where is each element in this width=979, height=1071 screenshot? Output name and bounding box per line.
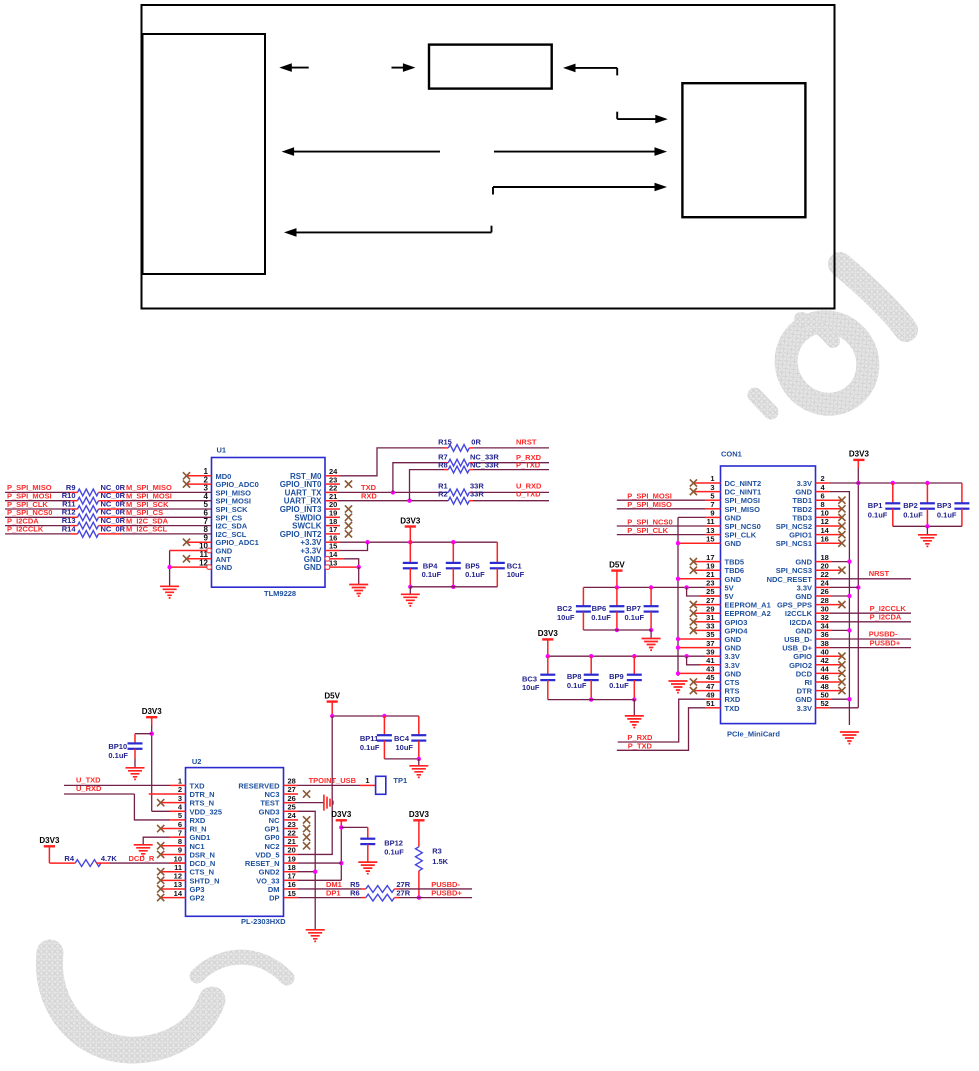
CON1 pin 29 no-connect [690, 610, 721, 617]
svg-text:PUSBD+: PUSBD+ [431, 889, 462, 898]
elbow arrow second toward right box [493, 183, 667, 195]
svg-text:PCIe_MiniCard: PCIe_MiniCard [727, 730, 780, 739]
branch wire RXD up to R8 [410, 470, 449, 501]
svg-text:BP1: BP1 [868, 501, 883, 510]
CON1 left GND bus [676, 517, 721, 676]
net P_SPI_MISO wire [5, 483, 78, 492]
ground below BP12 [358, 862, 377, 874]
ground below BC4 [409, 759, 428, 778]
svg-text:BP12: BP12 [384, 839, 403, 848]
capacitor BC1 10uF [490, 542, 525, 587]
ground below BP7 [642, 630, 661, 650]
op-amp U1 TLM9228 body [212, 446, 326, 599]
svg-text:D3V3: D3V3 [409, 810, 430, 819]
CON1 right GND bus [816, 492, 852, 725]
resistor R5 27R [350, 880, 411, 893]
test point TP1 [365, 776, 407, 794]
block diagram outer frame [142, 5, 835, 309]
net U_TXD wire to U2 pin 1 [64, 776, 186, 786]
U2 pin 9 no-connect [157, 851, 185, 858]
net P_SPI_NCS0 wire [5, 508, 78, 517]
svg-text:BP3: BP3 [937, 501, 952, 510]
svg-text:NRST: NRST [516, 438, 537, 447]
net PUSBD+ wire [394, 889, 472, 898]
svg-text:NRST: NRST [869, 569, 890, 578]
net M_SPI_MISO wire to U1 pin 3 [99, 483, 212, 492]
net P_RXD wire to CON1 pin 49 [618, 699, 721, 742]
CON1 pin 19 no-connect [690, 567, 721, 574]
CON1 pin 47 no-connect [690, 687, 721, 694]
5V rail wire to CON1 pins 23/25 [583, 585, 720, 596]
watermark fragment letter l stroke [840, 264, 906, 330]
svg-text:GND: GND [216, 563, 233, 572]
net PUSBD+ wire from CON1 pin 38 [816, 638, 912, 647]
svg-text:PL-2303HXD: PL-2303HXD [241, 917, 286, 926]
U1 pin 22 TXD wire [325, 483, 448, 495]
arrow into middle box left [392, 63, 416, 72]
capacitor BC3 10uF [522, 656, 555, 699]
svg-text:TP1: TP1 [393, 776, 407, 785]
CON1 right 3.3V bus D3V3 [856, 460, 860, 708]
U1 pin 2 no-connect [183, 481, 212, 488]
CON1 pin 27 no-connect [690, 601, 721, 608]
arrow middle-right toward right box [494, 147, 667, 156]
svg-text:0.1uF: 0.1uF [609, 681, 629, 690]
svg-text:DCD_R: DCD_R [129, 854, 155, 863]
net P_SPI_NCS0 wire to CON1 pin 11 [617, 517, 721, 526]
ground of CON1 right GND bus [840, 732, 859, 744]
svg-text:RXD: RXD [361, 491, 377, 500]
CON1 pin 28 no-connect [816, 601, 846, 608]
net P_SPI_MISO wire to CON1 pin 7 [617, 500, 721, 509]
resistor R13 NC_0R [62, 516, 126, 529]
CON1 pin 45 no-connect [690, 678, 721, 685]
U2 pin 8 no-connect [157, 842, 185, 849]
svg-text:GP2: GP2 [190, 894, 205, 903]
svg-text:0R: 0R [471, 437, 481, 446]
resistor R1 33R [438, 481, 484, 495]
CON1 pin 3 no-connect [690, 488, 721, 495]
CON1 pin 1 no-connect [690, 479, 721, 486]
CON1 pin 6 no-connect [816, 497, 846, 504]
net U_TXD wire [469, 490, 549, 501]
svg-text:D5V: D5V [324, 691, 340, 700]
ground below U1 pins 14/13 [349, 585, 368, 597]
capacitor BP12 0.1uF [341, 827, 404, 862]
CON1 pin 16 no-connect [816, 540, 846, 547]
3.3V rail wire to CON1 pins 39/41 [546, 654, 721, 665]
block diagram middle box [429, 45, 552, 89]
capacitor BP10 0.1uF [108, 734, 151, 768]
CON1 right bypass bottom rail [893, 524, 962, 528]
svg-text:BP10: BP10 [108, 742, 127, 751]
U1 pin 19 no-connect [325, 514, 352, 521]
U2 pin 28 wire TPOINT_USB [284, 776, 376, 785]
svg-text:U2: U2 [192, 757, 202, 766]
svg-text:16: 16 [821, 534, 829, 543]
U1 pin 18 no-connect [325, 522, 352, 529]
svg-text:10uF: 10uF [522, 683, 540, 692]
svg-text:10uF: 10uF [557, 613, 575, 622]
power symbol D3V3 left of CON1 [538, 629, 559, 656]
capacitor BP4 0.1uF [403, 542, 442, 589]
watermark fragment l entry stroke [801, 319, 833, 341]
svg-text:0.1uF: 0.1uF [903, 511, 923, 520]
capacitor BP5 0.1uF [446, 542, 485, 589]
svg-text:0.1uF: 0.1uF [465, 570, 485, 579]
capacitor BP7 0.1uF [625, 587, 659, 632]
capacitor BC2 10uF [557, 587, 591, 630]
net P_I2CCLK wire [5, 525, 78, 534]
resistor R9 NC_0R [66, 483, 126, 496]
svg-text:D3V3: D3V3 [538, 629, 559, 638]
elbow arrow into right box top [617, 112, 668, 124]
svg-text:0.1uF: 0.1uF [108, 751, 128, 760]
U2 pin 11 no-connect [157, 868, 185, 875]
resistor R10 NC_0R [62, 491, 126, 504]
CON1 pin 14 no-connect [816, 531, 846, 538]
D3V3 wire to U2 pins 17/19 [284, 820, 344, 880]
U2 pin 3 no-connect [157, 799, 185, 806]
svg-text:GND: GND [725, 539, 742, 548]
svg-text:0.1uF: 0.1uF [422, 570, 442, 579]
CON1 pin 31 no-connect [690, 618, 721, 625]
U1 pin 24 wire to R15 [325, 448, 448, 476]
power symbol D3V3 above CON1 right [849, 450, 870, 460]
arrow left-top toward left box [279, 63, 308, 72]
net P_TXD wire [469, 460, 549, 469]
svg-text:0.1uF: 0.1uF [937, 511, 957, 520]
svg-text:U_RXD: U_RXD [76, 784, 102, 793]
ground below BP9 [625, 700, 644, 728]
svg-text:10uF: 10uF [507, 570, 525, 579]
resistor R3 1.5K pull-up [416, 820, 449, 899]
U1 pin 21 RXD wire [325, 491, 448, 503]
svg-text:D3V3: D3V3 [39, 836, 60, 845]
svg-text:14: 14 [174, 889, 183, 898]
watermark fragment i bit [755, 395, 771, 412]
svg-text:P_I2CDA: P_I2CDA [870, 612, 902, 621]
svg-text:0.1uF: 0.1uF [591, 613, 611, 622]
svg-text:33R: 33R [470, 490, 484, 499]
U2 pin 23 no-connect [284, 825, 311, 832]
arrow bottom toward left box with elbow [284, 226, 492, 237]
U2 pin 7 GND1 to ground [143, 837, 185, 844]
net DM1 wire from U2 pin 16 [284, 880, 366, 889]
wire D3V3 to U2 pin 4 VDD_325 [150, 725, 186, 811]
connector CON1 PCIe_MiniCard body [721, 450, 816, 739]
net P_I2CDA wire [5, 516, 78, 525]
resistor R12 NC_0R [62, 508, 126, 521]
net PUSBD- wire [394, 880, 472, 889]
U2 pin 22 no-connect [284, 834, 311, 841]
CON1 pin 24 wire to 3.3V bus [816, 586, 859, 588]
svg-text:1: 1 [365, 776, 369, 785]
resistor R6 27R [350, 888, 411, 901]
svg-text:1.5K: 1.5K [432, 857, 448, 866]
U2 pin 24 no-connect [284, 816, 311, 823]
CON1 pin 8 no-connect [816, 505, 846, 512]
svg-text:R2: R2 [438, 490, 448, 499]
net DCD_R wire to U2 pin 10 [96, 854, 185, 863]
net P_I2CDA wire from CON1 pin 32 [816, 612, 912, 621]
svg-text:TLM9228: TLM9228 [264, 589, 296, 598]
U2 5V bypass bottom rail [384, 757, 421, 761]
U1 pin 16 +3.3V rail [325, 540, 497, 544]
svg-text:R14: R14 [62, 524, 77, 533]
svg-text:0.1uF: 0.1uF [868, 511, 888, 520]
svg-text:R6: R6 [350, 888, 360, 897]
U1 GND pins 10,12 to ground [167, 548, 211, 586]
U2 pin 12 no-connect [157, 877, 185, 884]
svg-text:SPI_NCS1: SPI_NCS1 [776, 539, 812, 548]
svg-text:NC_33R: NC_33R [470, 460, 499, 469]
CON1 pin 33 no-connect [690, 627, 721, 634]
power symbol D3V3 above BP4 [400, 516, 421, 542]
svg-text:U1: U1 [217, 446, 227, 455]
svg-text:R8: R8 [438, 460, 448, 469]
svg-text:U_TXD: U_TXD [516, 490, 541, 499]
net M_SPI_SCK wire to U1 pin 5 [99, 500, 212, 509]
U1 bypass bottom rail [410, 586, 497, 588]
net U_RXD wire [469, 481, 549, 492]
U1 pin 17 no-connect [325, 530, 352, 537]
net M_I2C_SDA wire to U1 pin 7 [99, 516, 212, 525]
svg-text:DP: DP [269, 894, 279, 903]
ground below U2 GND bus [306, 930, 325, 942]
net P_SPI_MOSI wire to CON1 pin 5 [617, 492, 721, 501]
ground of CON1 left GND bus [669, 681, 688, 693]
3.3V bypass bottom rail [548, 699, 635, 701]
svg-text:D3V3: D3V3 [142, 707, 163, 716]
svg-text:BP11: BP11 [360, 734, 378, 743]
power symbol D3V3 above BP10 [142, 707, 163, 725]
resistor R2 33R [438, 490, 484, 505]
net U_RXD wire to U2 pin 5 [64, 784, 186, 820]
svg-text:0.1uF: 0.1uF [360, 743, 380, 752]
watermark fragment letter C arc [49, 953, 212, 1050]
svg-text:51: 51 [706, 699, 714, 708]
net M_SPI_MOSI wire to U1 pin 4 [99, 492, 212, 501]
CON1 pin names and numbers [706, 474, 830, 713]
net PUSBD- wire from CON1 pin 36 [816, 630, 912, 639]
capacitor BP6 0.1uF [591, 587, 624, 632]
5V bypass bottom rail [583, 629, 651, 631]
U1 pin 20 no-connect [325, 505, 352, 512]
U1 pin names and numbers [199, 467, 338, 572]
svg-text:BP7: BP7 [626, 604, 641, 613]
net P_SPI_CLK wire [5, 500, 78, 509]
net NRST wire from CON1 pin 22 [816, 569, 912, 579]
svg-text:P_SPI_MISO: P_SPI_MISO [627, 500, 672, 509]
capacitor BP2 0.1uF [903, 483, 935, 526]
svg-text:D3V3: D3V3 [400, 516, 421, 525]
ground below U2 pin 7 [134, 845, 153, 857]
ground below BP10 [126, 768, 145, 780]
svg-text:NC_0R: NC_0R [101, 524, 126, 533]
net P_RXD wire [469, 453, 549, 463]
U1 pin 11 no-connect [183, 555, 212, 562]
svg-text:P_TXD: P_TXD [628, 742, 653, 751]
U2 pin 6 no-connect [157, 825, 185, 832]
ground below U1 pins 10/12 [160, 586, 179, 598]
net P_I2CCLK wire from CON1 pin 30 [816, 604, 912, 613]
capacitor BP8 0.1uF [567, 656, 599, 702]
CON1 pin 46 no-connect [816, 678, 846, 685]
svg-text:M_I2C_SCL: M_I2C_SCL [126, 525, 168, 534]
svg-text:D3V3: D3V3 [849, 450, 870, 459]
CON1 pin 52 wire to 3.3V bus [816, 707, 859, 709]
svg-text:P_TXD: P_TXD [516, 460, 541, 469]
svg-text:52: 52 [821, 699, 829, 708]
ground below BP4 [401, 587, 420, 606]
svg-text:D3V3: D3V3 [331, 810, 352, 819]
U1 pin 23 no-connect [325, 481, 352, 488]
U1 GND pins 14,13 to ground [325, 556, 361, 584]
CON1 pin 44 no-connect [816, 670, 846, 677]
U1 pin 9 no-connect [183, 539, 212, 546]
net P_TXD wire to CON1 pin 51 [617, 708, 721, 751]
svg-text:4.7K: 4.7K [101, 854, 117, 863]
CON1 pin 12 no-connect [816, 522, 846, 529]
net M_I2C_SCL wire to U1 pin 8 [99, 525, 212, 534]
svg-text:BC2: BC2 [557, 604, 572, 613]
CON1 pin 10 no-connect [816, 514, 846, 521]
svg-text:0.1uF: 0.1uF [567, 681, 587, 690]
capacitor BP1 0.1uF [868, 483, 901, 526]
svg-text:BC4: BC4 [394, 734, 410, 743]
svg-text:PUSBD+: PUSBD+ [870, 638, 901, 647]
U2 pins 25/18 GND bus to ground [284, 811, 318, 929]
5V rail to BP11 BC4 [330, 714, 419, 718]
ground below BP2 [918, 526, 937, 546]
resistor R8 NC_33R [438, 460, 499, 473]
arrow into middle box right with elbow [563, 64, 617, 76]
svg-text:10uF: 10uF [396, 743, 414, 752]
svg-text:P_SPI_CLK: P_SPI_CLK [627, 526, 668, 535]
resistor R4 4.7K [49, 854, 117, 867]
svg-text:27R: 27R [396, 888, 410, 897]
U2 pin 14 no-connect [157, 894, 185, 901]
watermark fragment letter a bowl [769, 305, 884, 421]
svg-text:DP1: DP1 [326, 889, 341, 898]
svg-text:R4: R4 [64, 854, 74, 863]
svg-text:15: 15 [706, 534, 714, 543]
svg-text:BP8: BP8 [567, 672, 582, 681]
capacitor BC4 10uF [394, 716, 426, 759]
power symbol D3V3 left of R4 [39, 836, 60, 863]
CON1 pin 17 no-connect [690, 558, 721, 565]
branch wire TXD up to R7 [393, 463, 448, 493]
resistor R7 NC_33R [438, 453, 499, 467]
svg-text:R15: R15 [438, 437, 452, 446]
svg-text:R3: R3 [432, 847, 442, 856]
resistor R15 0R [438, 437, 481, 451]
resistor R11 NC_0R [62, 499, 126, 512]
svg-text:3.3V: 3.3V [797, 704, 812, 713]
capacitor BP9 0.1uF [609, 656, 642, 702]
power symbol D5V left of CON1 [609, 560, 625, 587]
svg-text:D5V: D5V [609, 560, 625, 569]
power symbol D3V3 above BP12 [331, 810, 352, 820]
net NRST wire [469, 438, 549, 448]
block diagram right box [682, 83, 805, 217]
svg-text:GND: GND [304, 563, 322, 572]
svg-text:BP6: BP6 [592, 604, 607, 613]
U1 pin 15 +3.3V elbow [325, 542, 368, 550]
svg-text:CON1: CON1 [721, 450, 742, 459]
net DP1 wire from U2 pin 15 [284, 889, 366, 898]
watermark fragment o top [197, 957, 287, 978]
CON1 pin 48 no-connect [816, 687, 846, 694]
capacitor BP3 0.1uF [937, 483, 970, 526]
svg-text:TXD: TXD [725, 704, 741, 713]
resistor R14 NC_0R [62, 524, 126, 537]
arrow middle-left toward left box [282, 147, 440, 156]
U2 pin 21 no-connect [284, 842, 311, 849]
svg-text:P_I2CCLK: P_I2CCLK [7, 525, 44, 534]
svg-text:0.1uF: 0.1uF [384, 848, 404, 857]
wire D5V down to U2 pin 20 VDD_5 [284, 716, 333, 854]
net P_SPI_MOSI wire [5, 492, 78, 501]
net M_SPI_CS wire to U1 pin 6 [99, 508, 212, 517]
U2 pin 26 TEST to sideways ground [284, 795, 334, 811]
capacitor BP11 0.1uF [360, 716, 392, 759]
svg-text:15: 15 [288, 889, 296, 898]
CON1 pin 40 no-connect [816, 653, 846, 660]
CON1 pin 2 3.3V rail wire [816, 481, 962, 485]
CON1 pin 42 no-connect [816, 661, 846, 668]
power symbol D5V above U2 [324, 691, 340, 716]
U2 pin 13 no-connect [157, 885, 185, 892]
svg-text:0.1uF: 0.1uF [625, 613, 645, 622]
block diagram left box [143, 34, 266, 274]
U2 pin 27 no-connect [284, 790, 311, 797]
power symbol D3V3 above R3 [409, 810, 430, 820]
svg-text:BP9: BP9 [609, 672, 624, 681]
CON1 pin 20 no-connect [816, 567, 846, 574]
net P_SPI_CLK wire to CON1 pin 13 [617, 526, 721, 535]
transistor U2 PL-2303HXD body [186, 757, 287, 926]
U2 pin 2 stub [149, 793, 186, 795]
U1 pin 1 no-connect [183, 472, 212, 479]
U2 pin names and numbers [174, 777, 297, 903]
svg-text:BP2: BP2 [903, 501, 918, 510]
